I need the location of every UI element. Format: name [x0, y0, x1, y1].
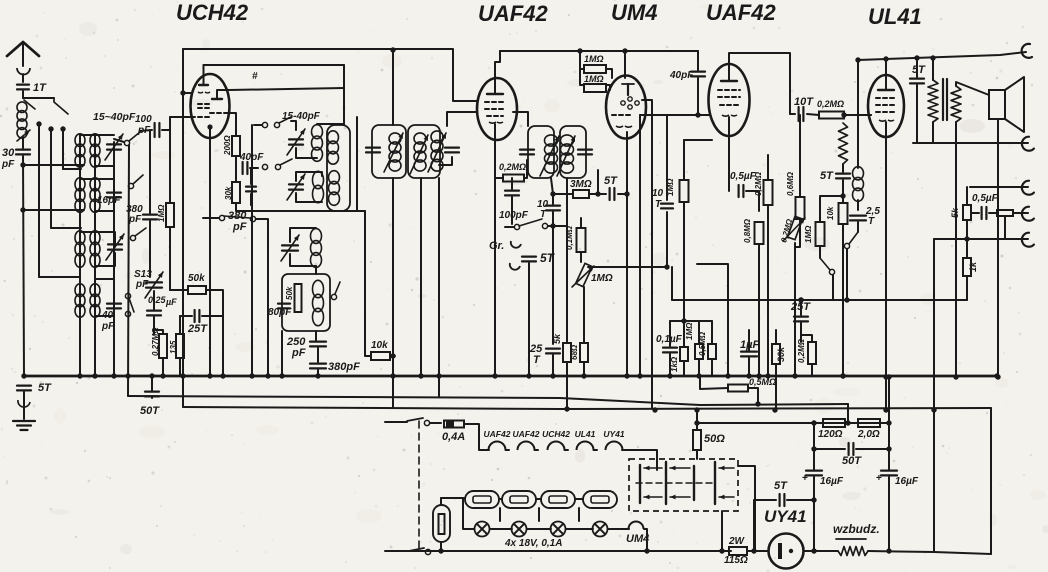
wire um4 anode	[642, 100, 652, 408]
antenna coil arrow	[17, 130, 30, 141]
wire chain	[506, 449, 510, 451]
wire pot2 dn	[794, 243, 796, 376]
junction	[21, 373, 26, 378]
svg-text:5k: 5k	[552, 333, 562, 344]
wire 40pF dn	[697, 51, 699, 70]
wire 25T dn	[552, 355, 554, 376]
wire mains bottom2	[868, 551, 991, 554]
switch contact	[542, 223, 547, 228]
resistor 1MΩ grid	[166, 203, 174, 227]
capacitor 380pF osc	[246, 186, 256, 188]
svg-text:1MΩ: 1MΩ	[804, 225, 813, 243]
junction	[931, 407, 936, 412]
junction	[811, 446, 816, 451]
wire 10k right	[390, 355, 395, 357]
wire 05Maf dn	[711, 359, 713, 376]
inductor IF1 coil b	[414, 133, 426, 144]
selector mid dash	[636, 482, 714, 484]
wire band bus a	[38, 124, 40, 277]
wire 380 dn2	[317, 370, 319, 376]
ground main	[13, 420, 35, 422]
wire 5T out up	[916, 58, 918, 77]
junction	[595, 191, 600, 196]
heater heater UCH42	[548, 442, 565, 451]
junction	[48, 126, 53, 131]
switch mains	[385, 550, 409, 552]
tube UCH42 hexode anode	[212, 98, 222, 100]
switch T2	[133, 175, 143, 184]
wire extra speaker	[934, 238, 1028, 240]
svg-text:5T: 5T	[604, 175, 618, 187]
inductor T2 primary	[75, 178, 85, 191]
wire lamps top3	[575, 498, 583, 500]
capacitor 16µF b	[881, 470, 897, 472]
switch contact	[274, 122, 279, 127]
resistor 0,5MΩ af	[708, 344, 716, 359]
tube UY41	[769, 534, 804, 569]
dial tube 4	[583, 491, 617, 508]
junction	[492, 373, 497, 378]
trim arrow IF2a	[540, 136, 559, 176]
switch contact	[424, 420, 429, 425]
wire 1uF up	[748, 330, 750, 350]
tube UL41 envelope	[868, 75, 904, 137]
wire UCH42 triode plate	[204, 64, 345, 66]
svg-text:1MΩ: 1MΩ	[584, 54, 604, 64]
junction	[811, 497, 816, 502]
svg-text:10k: 10k	[371, 340, 388, 351]
junction	[526, 373, 531, 378]
svg-text:pF: pF	[1, 159, 15, 170]
resistor 0,2MΩ coup	[819, 112, 844, 119]
svg-text:T: T	[655, 199, 662, 210]
svg-text:5T: 5T	[774, 480, 788, 492]
wire UAF42II plate	[729, 53, 790, 114]
wire UM4 top	[624, 51, 626, 78]
wire y267 ext	[697, 264, 728, 376]
inductor T4 secondary	[90, 284, 100, 297]
svg-text:40: 40	[101, 310, 114, 321]
svg-text:5k: 5k	[950, 207, 960, 218]
resistor 50Ω	[693, 430, 701, 450]
tube UL41 g dashes	[876, 97, 897, 99]
wire psu v2	[888, 377, 890, 470]
junction	[994, 373, 999, 378]
wire IF1 cap c dn	[439, 157, 452, 165]
switch contact	[262, 164, 267, 169]
wire osc bottom	[262, 210, 365, 212]
svg-text:UCH42: UCH42	[542, 429, 570, 439]
wire antenna stem	[22, 74, 24, 82]
tube UAF42II diode dash	[720, 104, 738, 106]
junction	[550, 191, 555, 196]
wire det c	[511, 197, 513, 224]
svg-text:0,5µF: 0,5µF	[730, 171, 757, 182]
wire T1 sw	[114, 139, 124, 142]
wire 135 up	[179, 316, 181, 334]
junction	[883, 374, 888, 379]
switch gramo	[519, 219, 542, 226]
svg-text:UCH42: UCH42	[176, 0, 249, 25]
resistor feedback	[839, 123, 848, 164]
resistor output primary	[928, 80, 938, 122]
wire fb b	[842, 180, 844, 203]
junction	[60, 126, 65, 131]
junction	[279, 373, 284, 378]
wire 5T right	[618, 193, 627, 195]
heater heater UAF42	[518, 442, 535, 451]
svg-text:50Ω: 50Ω	[704, 433, 725, 445]
svg-text:25T: 25T	[187, 323, 208, 335]
wire um4 r lead2	[606, 85, 610, 90]
svg-text:pF: pF	[135, 279, 149, 290]
wire 02M lead	[495, 177, 503, 179]
transformer core	[942, 79, 944, 120]
junction	[436, 373, 441, 378]
wire IF1 a dn	[392, 178, 394, 356]
switch contact	[829, 269, 834, 274]
svg-text:UY41: UY41	[603, 429, 625, 439]
tube UCH42 grid arcs	[198, 91, 210, 94]
resistor 1MΩ fb	[816, 222, 825, 246]
wire 30k up	[775, 330, 777, 344]
wire 50k left	[170, 289, 188, 291]
lamp dial lamp 1	[475, 522, 490, 537]
inductor T1 secondary	[90, 134, 100, 147]
junction	[667, 373, 672, 378]
wire um4 cath	[626, 132, 628, 376]
capacitor 380pF input	[143, 214, 157, 216]
wire T3 top	[80, 232, 115, 243]
inductor IF1 coil c	[431, 131, 443, 143]
junction	[438, 548, 443, 553]
resistor 135	[176, 334, 184, 358]
wire 250 dn	[317, 348, 319, 362]
wire 01M up	[580, 218, 582, 228]
junction	[886, 446, 891, 451]
wire T2 top	[80, 179, 114, 191]
wire 10k left	[365, 211, 371, 356]
resistor 200Ω	[232, 136, 240, 156]
junction	[220, 373, 225, 378]
barretter	[433, 505, 450, 542]
selector arrow 6	[719, 496, 734, 498]
capacitor 80pF	[278, 303, 290, 305]
wire antenna to tap	[22, 91, 24, 98]
svg-text:pF: pF	[291, 347, 306, 359]
wire sel out	[738, 466, 755, 551]
svg-text:380pF: 380pF	[328, 361, 360, 373]
wire 1Mfb up	[820, 196, 843, 222]
svg-text:30k: 30k	[776, 346, 786, 362]
svg-text:UL41: UL41	[575, 429, 596, 439]
capacitor 16pF	[107, 192, 121, 194]
wire 1Mfb dn	[819, 246, 821, 258]
inductor T3 secondary	[90, 231, 100, 245]
svg-text:0,2MΩ: 0,2MΩ	[817, 99, 844, 109]
inductor T3 primary	[75, 231, 85, 245]
svg-text:40pF: 40pF	[669, 70, 694, 81]
junction	[886, 420, 891, 425]
resistor 1k out	[963, 258, 971, 276]
wire uy41 out	[804, 550, 838, 552]
wire UAF42I cathode dn	[494, 133, 496, 376]
wire coup a	[807, 114, 819, 115]
wire mid v1	[267, 266, 269, 376]
wire 16a dn	[813, 477, 815, 551]
svg-text:1k: 1k	[968, 261, 978, 272]
capacitor IF1 cap c	[445, 147, 459, 149]
wire pot dn	[583, 287, 585, 343]
capacitor 380pF osc2	[310, 363, 326, 365]
lamp dial lamp 2	[512, 522, 527, 537]
wire 100pF out	[162, 129, 170, 131]
wire 25T r	[202, 315, 223, 317]
wire tank2	[296, 193, 322, 202]
svg-text:50k: 50k	[188, 273, 205, 284]
wire 1k dn	[683, 361, 685, 376]
inductor osc coil 1a	[312, 125, 323, 139]
wire UL41 grid	[868, 114, 871, 116]
wire psu v1	[813, 423, 815, 470]
resistor 1kΩ	[680, 347, 688, 361]
wire 40pF dn2	[697, 78, 699, 115]
svg-text:#: #	[252, 71, 258, 82]
wire sel out 2	[721, 511, 723, 551]
junction	[644, 548, 649, 553]
wire fb c	[842, 224, 844, 376]
wire 380pF	[149, 130, 151, 213]
trim arrow IF1a	[384, 133, 403, 172]
wire fuse to chain	[464, 424, 489, 450]
wire um4 feed2	[580, 68, 584, 70]
wire y300 l	[671, 267, 673, 300]
svg-text:+: +	[802, 473, 808, 484]
svg-text:80pF: 80pF	[268, 307, 292, 318]
switch contact	[128, 183, 133, 188]
wire 3M left	[553, 193, 573, 195]
svg-text:10k: 10k	[826, 206, 835, 220]
junction	[696, 373, 701, 378]
svg-text:30k: 30k	[224, 186, 233, 200]
junction	[792, 373, 797, 378]
svg-text:120Ω: 120Ω	[818, 429, 843, 440]
resistor 50k osc	[188, 286, 206, 294]
capacitor 50T psu	[847, 443, 849, 455]
wire 01uF dn	[669, 354, 671, 376]
inductor osc coil 1b	[328, 131, 339, 144]
wire osc sw	[254, 124, 262, 126]
wire coup b	[844, 114, 871, 116]
wire link T4	[39, 276, 80, 278]
resistor 68Ω	[580, 343, 588, 362]
dial tube 3	[541, 491, 575, 508]
wire ext dn	[1004, 216, 1006, 239]
capacitor 1µF	[741, 351, 757, 353]
resistor 0,27MΩ	[159, 334, 167, 358]
tube UL41 cathode	[879, 120, 894, 121]
wire T1 trim down	[95, 153, 114, 166]
tube UM4 target	[627, 84, 629, 95]
wire 50 up	[696, 410, 698, 430]
resistor 2W 115Ω	[729, 547, 747, 555]
wire 01uF up	[669, 321, 671, 346]
tube UAF42I diode dash	[487, 115, 503, 117]
junction	[756, 373, 761, 378]
capacitor 16µF a	[806, 470, 822, 472]
junction	[930, 55, 935, 60]
wire 1k up	[683, 321, 685, 347]
wire 02M lead2	[524, 160, 527, 178]
trim arrow IF2b	[557, 136, 575, 176]
wire mains dash	[418, 421, 420, 548]
capacitor 0,5µF	[737, 185, 739, 197]
junction	[149, 373, 154, 378]
junction	[36, 121, 41, 126]
wire osc tank1	[296, 148, 317, 158]
wire 380 up	[250, 168, 252, 184]
junction	[844, 297, 849, 302]
wire 5T psu r	[787, 499, 814, 501]
wire 25Ts dn	[800, 323, 802, 342]
wire 380 dn	[250, 194, 252, 205]
capacitor 100pF	[154, 123, 156, 137]
wire tank2 top	[296, 172, 322, 181]
selector bar 4	[714, 462, 716, 504]
junction	[765, 373, 770, 378]
junction	[550, 373, 555, 378]
tube UCH42 g2 dashes	[198, 103, 211, 105]
svg-text:UM4: UM4	[611, 0, 657, 25]
wire dec r	[748, 388, 758, 404]
wire ext r	[1013, 212, 1028, 214]
svg-text:5T: 5T	[912, 64, 926, 76]
junction	[840, 373, 845, 378]
junction	[664, 264, 669, 269]
switch mains top	[385, 421, 407, 423]
wire 2,5T dn	[857, 222, 859, 232]
wire lamps top2	[536, 498, 541, 500]
inductor osc coil 3	[311, 229, 322, 244]
svg-text:16µF: 16µF	[895, 476, 919, 487]
resistor 10k fb	[839, 203, 848, 224]
wire T4 top	[79, 277, 81, 285]
wire lamps v1	[499, 508, 501, 521]
wire 25T	[180, 315, 192, 317]
wire bus B	[128, 396, 848, 405]
wire grid vert2	[639, 115, 641, 376]
switch contact	[125, 311, 130, 316]
wire lamps join1	[490, 528, 512, 530]
antenna lead-in loop	[17, 68, 30, 75]
wire dec l	[700, 376, 728, 389]
wire 05 out r	[989, 212, 997, 214]
wire 25Ts up	[800, 300, 802, 315]
junction	[883, 407, 888, 412]
wire 1M dn	[169, 227, 171, 290]
resistor 0,1MΩ	[577, 228, 586, 252]
capacitor 10T coupling	[797, 107, 799, 121]
switch antenna	[24, 100, 35, 109]
svg-text:UY41: UY41	[764, 507, 807, 526]
tube UM4 dashes	[612, 114, 632, 116]
svg-text:1MΩ: 1MΩ	[666, 178, 675, 196]
wire osc left	[251, 125, 253, 376]
svg-text:0,1MΩ: 0,1MΩ	[565, 225, 574, 250]
wire 1M diode up	[683, 140, 685, 180]
tube UAF42II g dashes	[718, 89, 740, 91]
inductor T2 secondary	[90, 178, 100, 191]
inductor osc coil 2	[313, 171, 324, 188]
wire s13 dn	[153, 291, 155, 309]
resistor ext	[997, 210, 1013, 216]
wire 50T dn	[151, 396, 153, 398]
junction	[883, 56, 888, 61]
terminal gramo bottom	[510, 263, 520, 270]
wire bus B2	[847, 404, 849, 423]
wire lamps v2	[538, 508, 540, 521]
svg-text:Gr.: Gr.	[489, 240, 504, 252]
variable capacitor osc trimmer 2	[289, 183, 303, 185]
junction	[681, 318, 686, 323]
wire gramo sw2	[548, 225, 567, 227]
resistor 30k	[232, 182, 240, 203]
wire g3 out	[224, 113, 236, 136]
wire barretter up	[440, 498, 442, 505]
box oscillator coils	[327, 125, 350, 211]
wire link T3	[51, 227, 81, 229]
wire 135 dn	[179, 358, 181, 376]
wire choke up	[857, 60, 859, 168]
wire tank3 stem	[315, 266, 317, 274]
resistor 0,2MΩ b	[764, 180, 773, 205]
switch tone	[820, 258, 830, 270]
svg-text:50T: 50T	[140, 405, 160, 417]
wire 50T r	[856, 448, 889, 450]
tube UAF42I anode	[487, 93, 503, 95]
heater heater UL41	[577, 442, 594, 451]
junction	[840, 373, 845, 378]
capacitor 25T af	[546, 348, 560, 350]
junction	[160, 373, 165, 378]
svg-text:50k: 50k	[285, 286, 294, 300]
capacitor 5T gramo	[522, 256, 536, 258]
wire prim up	[932, 58, 934, 80]
junction	[315, 373, 320, 378]
resistor 1MΩ um4 a	[584, 65, 606, 73]
svg-text:1MΩ: 1MΩ	[157, 204, 166, 222]
resistor 120Ω	[823, 419, 845, 427]
svg-text:µF: µF	[165, 297, 177, 307]
box IF2 b	[560, 126, 586, 178]
svg-text:5T: 5T	[38, 382, 52, 394]
junction	[564, 406, 569, 411]
svg-text:0,2MΩ: 0,2MΩ	[499, 162, 526, 172]
wire 40pF node	[235, 168, 237, 182]
svg-text:200Ω: 200Ω	[223, 135, 232, 156]
speaker	[989, 90, 1005, 119]
wire lamps right	[608, 528, 629, 530]
inductor osc coil 2b	[329, 171, 340, 184]
inductor IF1 coil a	[389, 133, 401, 144]
svg-text:15~40pF: 15~40pF	[93, 111, 136, 123]
switch contact	[125, 293, 130, 298]
tube UCH42 g3 dashes	[210, 112, 224, 114]
wire diode tap	[684, 139, 712, 141]
svg-text:115Ω: 115Ω	[724, 555, 748, 566]
dial tube 2	[502, 491, 536, 508]
junction	[550, 223, 555, 228]
